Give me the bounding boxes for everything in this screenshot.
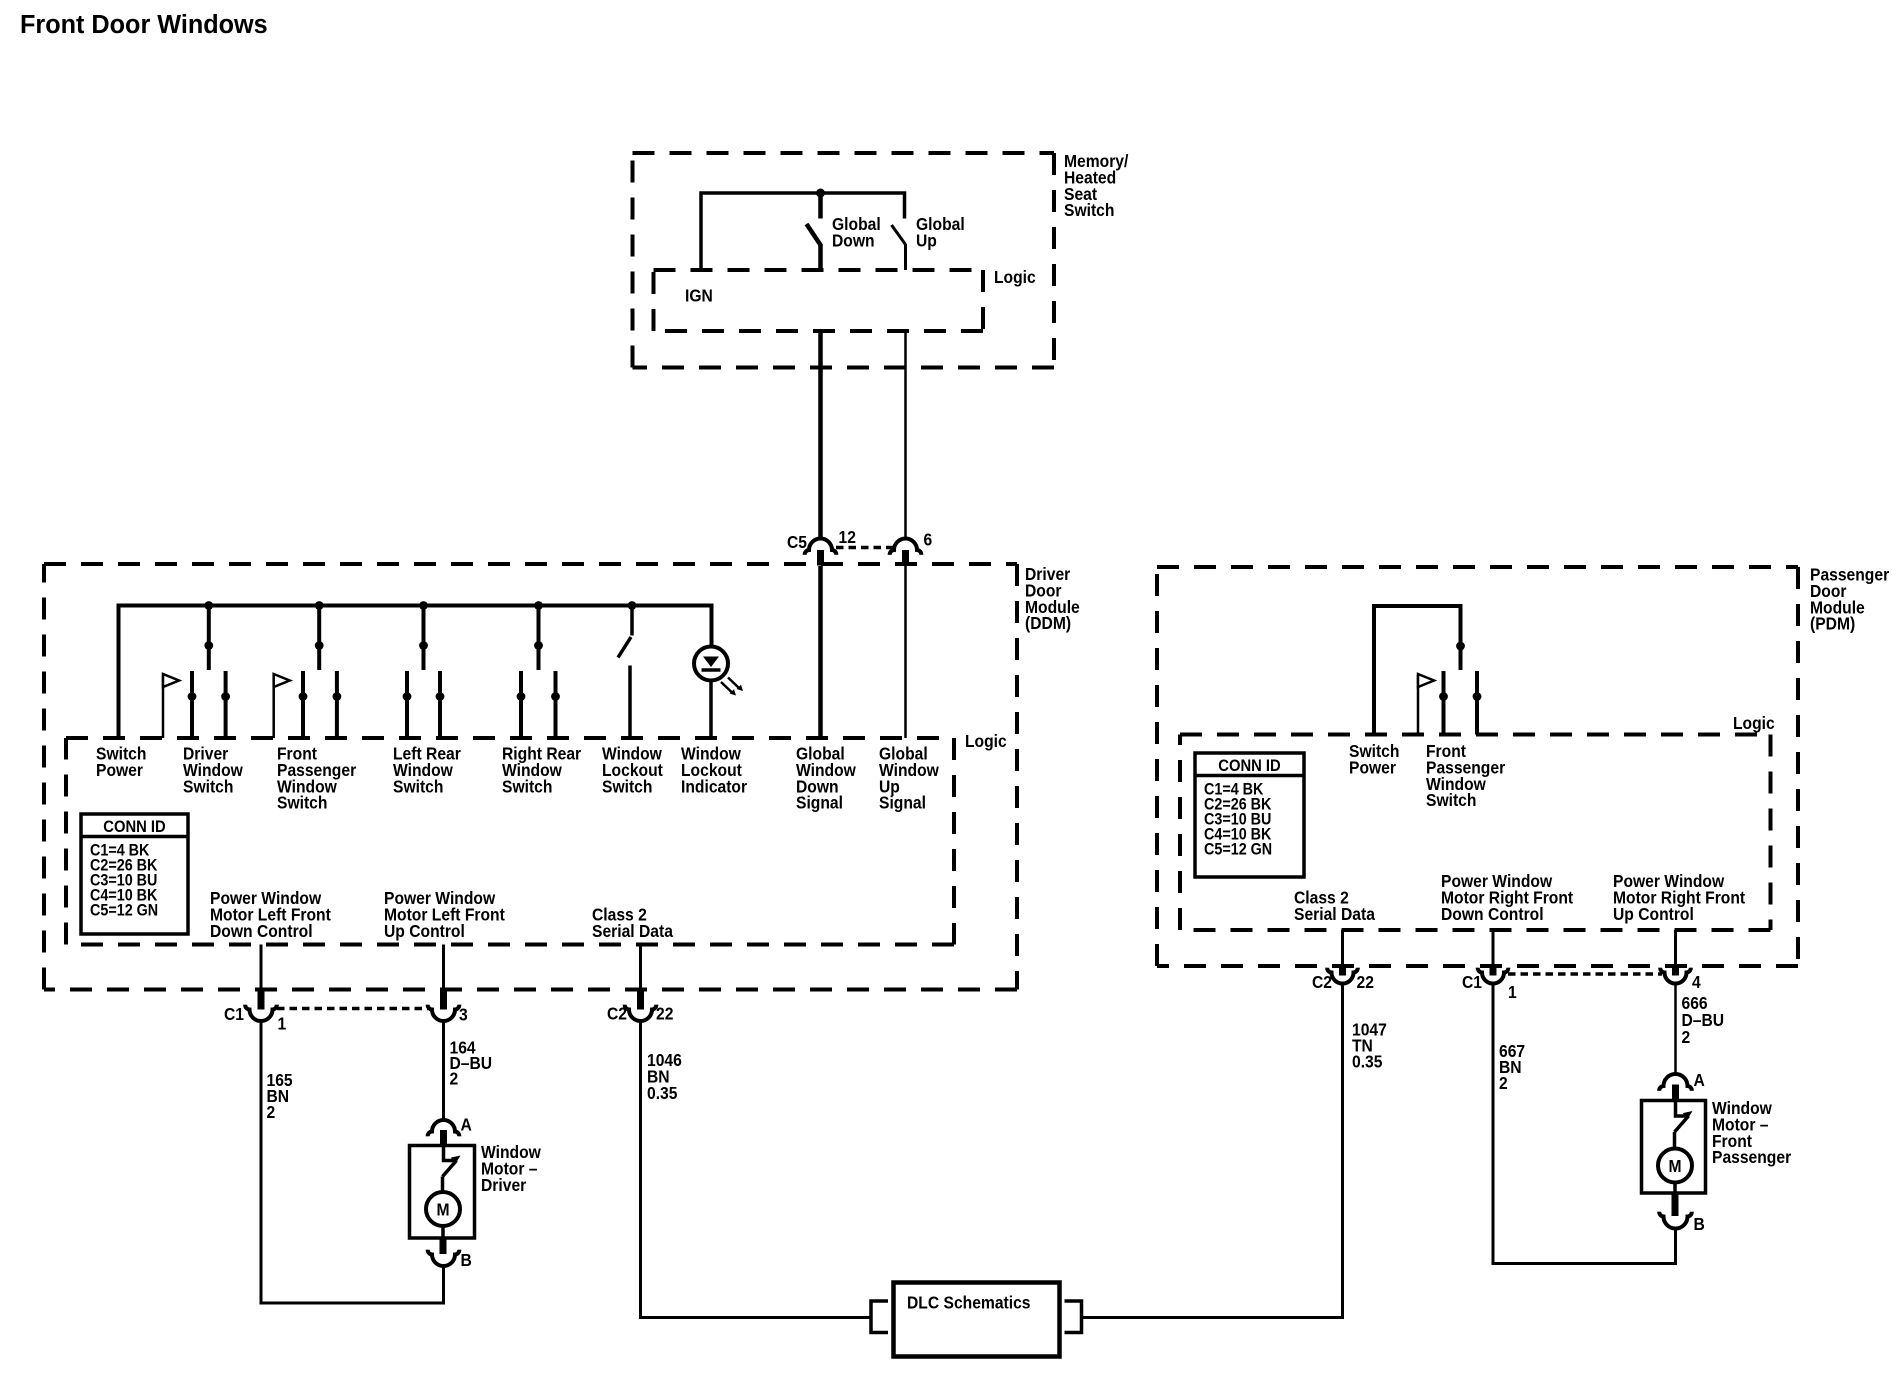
circuit breaker (driver motor) xyxy=(444,1147,454,1161)
pin B stub (driver) xyxy=(440,1238,447,1254)
connector C1 pin 3 xyxy=(428,1005,460,1021)
wire: MHSS feed bus xyxy=(701,193,905,270)
connector C1 pin 1 (PDM) xyxy=(1478,968,1509,984)
connector C5 pin 6 (female) xyxy=(890,539,922,555)
DDM logic box xyxy=(66,738,954,945)
wire: up control to C1-4 (PDM) xyxy=(1674,930,1677,966)
svg-text:1: 1 xyxy=(278,1013,287,1033)
connector link dash C1 (PDM) xyxy=(1508,972,1662,976)
svg-text:DLC Schematics: DLC Schematics xyxy=(907,1292,1031,1312)
pin A stub (passenger) xyxy=(1672,1085,1679,1102)
wire: bottom loop to window motor driver B xyxy=(260,1302,446,1305)
dot on right rear window switch stub xyxy=(534,641,543,650)
flag terminal (front passenger window switch) xyxy=(272,675,275,738)
wire 165 BN xyxy=(260,1021,263,1304)
contact: driver window switch up xyxy=(224,671,228,738)
wire 666 D-BU xyxy=(1674,984,1677,1075)
junction dot bus / front passenger window switch xyxy=(315,601,324,610)
wire: driver window switch feed stub xyxy=(207,606,211,671)
connector C2 pin 22 xyxy=(625,1005,657,1021)
off-page bracket left of DLC xyxy=(871,1301,888,1333)
svg-text:22: 22 xyxy=(1357,972,1374,992)
pin B stub (passenger) xyxy=(1672,1193,1679,1216)
circuit breaker (passenger motor) xyxy=(1676,1101,1686,1116)
pin C1-4 stub (PDM) xyxy=(1672,966,1679,976)
motor M (driver) xyxy=(426,1192,460,1226)
wire: class 2 serial data to C2-22 xyxy=(639,945,642,990)
connector pin A (window motor driver) xyxy=(428,1120,460,1136)
wire 667 BN xyxy=(1492,984,1495,1264)
Passenger Door Module (PDM) box xyxy=(1157,567,1798,966)
wire: global window up signal to C5-6 xyxy=(904,331,907,539)
wire 1046 BN horizontal to DLC xyxy=(639,1316,871,1319)
flag terminal (PDM front passenger switch) xyxy=(1417,675,1420,735)
wire: front passenger window switch feed stub xyxy=(317,606,321,671)
wire: B to bottom loop (passenger) xyxy=(1674,1229,1677,1264)
svg-text:M: M xyxy=(1668,1156,1681,1176)
svg-text:1: 1 xyxy=(1508,982,1517,1002)
wire: Global Down switch stub xyxy=(818,193,823,219)
pin C1-3 stub xyxy=(440,990,447,1010)
pin 6 stub xyxy=(902,550,909,566)
wire: right rear window switch feed stub xyxy=(537,606,541,671)
switch blade Global Up xyxy=(892,225,906,245)
contact: left rear window switch up xyxy=(438,671,442,738)
LED window lockout indicator xyxy=(694,647,728,681)
wire: global window up signal (DDM) xyxy=(904,566,907,738)
window motor front passenger box xyxy=(1642,1101,1706,1194)
wire: up control to C1-3 xyxy=(442,945,445,990)
pin C1-1 stub (PDM) xyxy=(1490,966,1497,976)
dot on driver window switch stub xyxy=(204,641,213,650)
svg-text:CONN ID: CONN ID xyxy=(1218,757,1280,775)
svg-text:C5: C5 xyxy=(787,532,807,552)
svg-text:4: 4 xyxy=(1692,972,1701,992)
pin C2-22 stub xyxy=(637,990,644,1010)
connector pin B (passenger motor) xyxy=(1659,1212,1692,1229)
wire: class 2 to C2-22 (PDM) xyxy=(1341,930,1344,966)
wire 164 D-BU xyxy=(442,1021,445,1121)
switch blade window lockout xyxy=(618,637,631,658)
connector C1 pin 1 xyxy=(245,1005,277,1021)
svg-text:C1=4 BKC2=26 BKC3=10 BUC4=10 B: C1=4 BKC2=26 BKC3=10 BUC4=10 BKC5=12 GN xyxy=(1204,781,1272,859)
svg-text:C2: C2 xyxy=(607,1003,627,1023)
PDM logic box xyxy=(1180,735,1771,931)
junction dot bus / driver window switch xyxy=(204,601,213,610)
off-page bracket right of DLC xyxy=(1065,1301,1082,1333)
dot on left rear window switch stub xyxy=(419,641,428,650)
svg-text:IGN: IGN xyxy=(685,285,713,305)
LED light arrows xyxy=(721,678,743,696)
wire: DDM switch power bus xyxy=(119,606,712,739)
wire: lockout switch stub xyxy=(630,606,634,636)
wire 1047 TN horizontal from DLC xyxy=(1082,1316,1345,1319)
svg-text:C1=4 BKC2=26 BKC3=10 BUC4=10 B: C1=4 BKC2=26 BKC3=10 BUC4=10 BKC5=12 GN xyxy=(90,842,158,920)
svg-text:Front Door Windows: Front Door Windows xyxy=(20,11,268,39)
wire: lockout switch terminal xyxy=(628,666,632,739)
contact: right rear window switch down xyxy=(519,671,523,738)
svg-text:C1: C1 xyxy=(224,1004,244,1024)
contact: left rear window switch down xyxy=(405,671,409,738)
wire 1047 TN vertical xyxy=(1341,985,1344,1318)
pin C1-1 stub xyxy=(258,990,265,1010)
junction dot bus / left rear window switch xyxy=(419,601,428,610)
CONN ID table (DDM) xyxy=(81,814,188,934)
contact: PDM front passenger switch up xyxy=(1475,671,1479,735)
wire: down control to C1-1 xyxy=(260,945,263,990)
wire: PDM switch power bus xyxy=(1374,606,1461,735)
CONN ID table (PDM) xyxy=(1195,753,1304,877)
Memory/Heated Seat Switch module box xyxy=(633,153,1055,368)
wire: Global Up switch terminal xyxy=(904,244,907,270)
connector C5 pin 12 (female) xyxy=(805,539,837,555)
connector link dash C5 xyxy=(836,546,896,550)
svg-text:22: 22 xyxy=(656,1003,673,1023)
svg-text:A: A xyxy=(461,1114,472,1134)
svg-text:3: 3 xyxy=(459,1004,468,1024)
contact: right rear window switch up xyxy=(554,671,558,738)
connector pin A (passenger motor) xyxy=(1659,1074,1692,1091)
connector C2 pin 22 (PDM) xyxy=(1327,968,1358,984)
wire 1046 BN vertical xyxy=(639,1021,642,1318)
svg-text:12: 12 xyxy=(839,527,856,547)
wire: motor to box edge (driver) xyxy=(441,1226,445,1238)
svg-text:C1: C1 xyxy=(1462,972,1482,992)
svg-text:SwitchPower: SwitchPower xyxy=(96,743,146,780)
wire: down control to C1-1 (PDM) xyxy=(1492,930,1495,966)
svg-text:SwitchPower: SwitchPower xyxy=(1349,741,1399,778)
svg-text:C2: C2 xyxy=(1312,972,1332,992)
svg-text:GlobalDown: GlobalDown xyxy=(832,214,881,251)
wire: motor to box edge (passenger) xyxy=(1673,1183,1677,1194)
svg-text:B: B xyxy=(461,1250,472,1270)
contact: PDM front passenger switch down xyxy=(1442,671,1446,735)
wire: bottom loop to passenger motor B xyxy=(1492,1262,1678,1265)
Driver Door Module (DDM) box xyxy=(44,564,1017,990)
svg-text:B: B xyxy=(1694,1214,1705,1234)
svg-text:A: A xyxy=(1694,1070,1705,1090)
DLC Schematics box xyxy=(894,1283,1060,1357)
wire: global window down signal to C5-12 xyxy=(818,331,823,539)
connector pin B (window motor driver) xyxy=(428,1250,460,1266)
pin A stub (driver) xyxy=(440,1130,447,1147)
junction dot bus / right rear window switch xyxy=(534,601,543,610)
dot on PDM switch stub xyxy=(1456,642,1465,651)
dot on front passenger window switch stub xyxy=(315,641,324,650)
svg-text:M: M xyxy=(436,1199,449,1219)
wire: left rear window switch feed stub xyxy=(422,606,426,671)
switch blade Global Down xyxy=(807,224,821,245)
svg-text:Logic: Logic xyxy=(994,267,1036,287)
svg-text:6: 6 xyxy=(924,529,933,549)
wire: B to bottom loop (driver) xyxy=(442,1267,445,1304)
pin C2-22 stub (PDM) xyxy=(1339,966,1346,976)
svg-text:Logic: Logic xyxy=(1733,713,1775,733)
contact: front passenger window switch down xyxy=(301,671,305,738)
wire: Global Down switch terminal xyxy=(818,244,823,270)
window motor driver box xyxy=(410,1146,475,1239)
contact: front passenger window switch up xyxy=(335,671,339,738)
svg-text:CONN ID: CONN ID xyxy=(103,818,165,836)
junction dot on MHSS bus xyxy=(816,189,825,198)
contact: driver window switch down xyxy=(190,671,194,738)
pin 12 stub xyxy=(817,550,824,566)
connector C1 pin 4 (PDM) xyxy=(1660,968,1691,984)
wire: LED to logic xyxy=(709,681,713,739)
junction dot bus / window lockout switch xyxy=(628,601,637,610)
connector link dash C1 xyxy=(277,1007,428,1011)
wire: global window down signal (DDM) xyxy=(818,566,823,738)
motor M (passenger) xyxy=(1658,1149,1692,1183)
svg-text:WindowLockoutIndicator: WindowLockoutIndicator xyxy=(681,743,747,796)
MHSS logic box xyxy=(654,270,984,331)
flag terminal (driver window switch) xyxy=(162,675,165,738)
svg-text:Logic: Logic xyxy=(965,731,1007,751)
